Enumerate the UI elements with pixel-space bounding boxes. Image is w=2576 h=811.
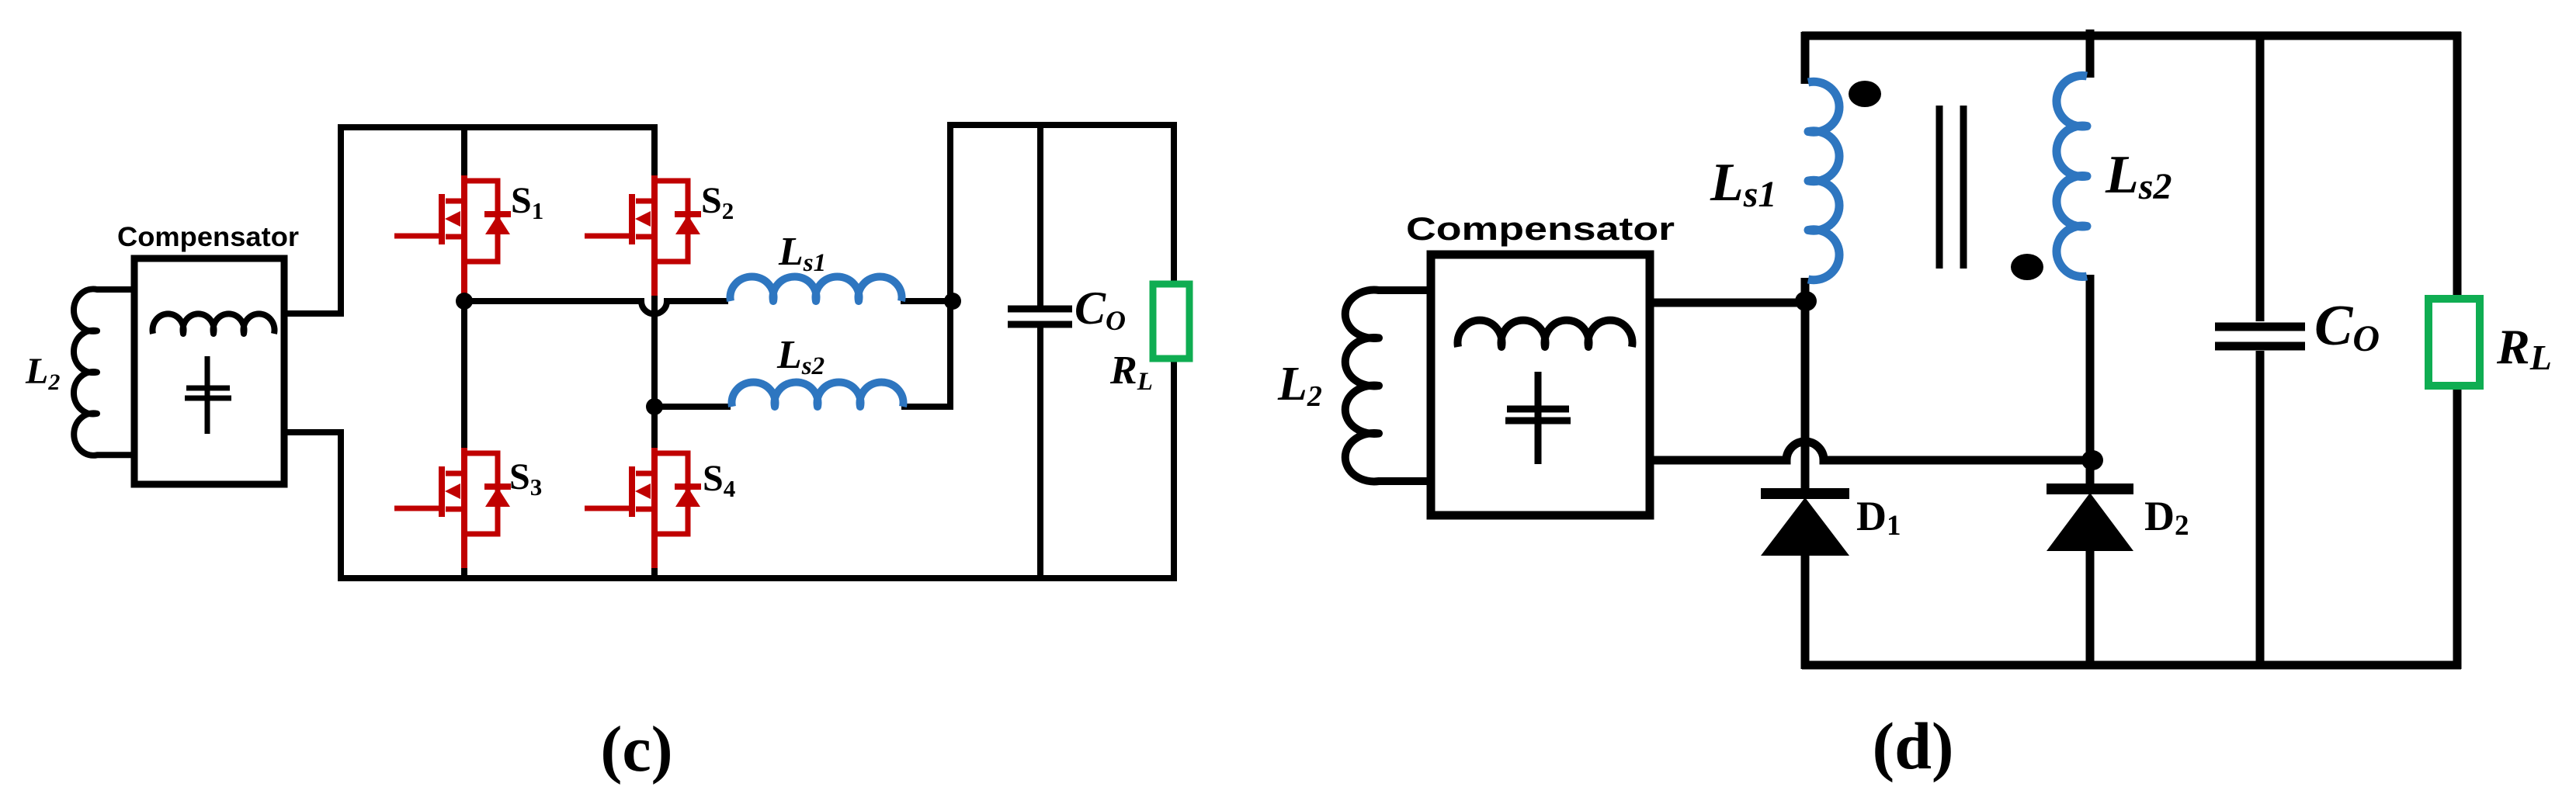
wire: S4 source to bottom bus <box>651 565 658 581</box>
transistor S3 <box>394 448 511 568</box>
wire: Ls2 right connection <box>901 404 950 407</box>
compensator (d) internal inductor <box>1458 321 1633 347</box>
svg-text:(c): (c) <box>600 713 672 785</box>
transistor S2 <box>585 175 701 296</box>
inductor Ls1 (d) coil <box>1808 81 1839 280</box>
capacitor Co (c) plate 2 <box>1008 321 1072 328</box>
wire: S1 drain leg <box>461 127 467 178</box>
wire: circuit (c) lower-left vertical <box>338 432 344 581</box>
transistor S4 <box>585 448 701 568</box>
compensator (d) internal capacitor lead <box>1535 372 1542 464</box>
diode D2 <box>2047 489 2133 551</box>
inductor L2 (d) coil <box>1345 290 1429 482</box>
inductor L2 (c) coil <box>74 289 134 455</box>
wire: circuit (c) inverter top rail <box>338 124 658 130</box>
compensator box (c) <box>134 258 284 484</box>
wire: S1-S3 midpoint leg <box>461 298 467 450</box>
wire: circuit (c) bottom bus <box>338 575 1177 581</box>
transistor S1 <box>394 175 511 296</box>
wire: capacitor Co branch upper <box>1037 122 1043 310</box>
wire: D1 anode to bottom bus <box>1801 554 1810 669</box>
wire: circuit (c) output top rail <box>947 122 1177 128</box>
wire: Ls1 row with hop over S2 leg <box>464 301 728 314</box>
wire: Ls2 (d) bottom to D2 <box>2086 275 2095 487</box>
wire: circuit (d) bottom bus <box>1802 661 2461 670</box>
node: Ls1-compensator junction (d) <box>1795 291 1817 311</box>
wire: S3 source to bottom bus <box>461 565 467 581</box>
svg-text:(d): (d) <box>1872 709 1953 783</box>
wire: Ls1 (d) top stub <box>1801 32 1810 84</box>
node: Ls2-compensator junction (d) <box>2081 450 2103 470</box>
node: S2-S4 midpoint junction <box>646 398 663 415</box>
inductor Ls2 (d) coil <box>2057 75 2087 276</box>
node: S1 source junction <box>456 293 473 310</box>
wire: S4 leg lower segment <box>651 407 658 450</box>
wire: compensator C bottom output <box>279 429 344 435</box>
compensator (c) internal capacitor plate 2 <box>185 396 231 401</box>
wire: circuit (d) top rail <box>1802 32 2461 40</box>
resistor RL (d) <box>2428 299 2480 386</box>
compensator (c) internal capacitor lead <box>205 356 210 434</box>
wire: compensator D bottom output with hop <box>1651 442 2094 460</box>
wire: capacitor Co branch lower <box>1037 324 1043 581</box>
compensator (d) internal capacitor plate 2 <box>1505 418 1571 425</box>
polarity dot Ls2 (d) <box>2011 254 2043 280</box>
wire: circuit (c) mid-right vertical <box>947 122 953 410</box>
wire: S2 drain leg <box>651 127 658 178</box>
wire: Ls2 row left segment <box>654 404 731 410</box>
capacitor Co (d) plate 2 <box>2215 342 2305 351</box>
wire: circuit (c) upper-left vertical <box>338 124 344 314</box>
inductor Ls1 (c) coil <box>731 277 902 301</box>
wire: circuit (d) right vertical (load branch) <box>2453 32 2462 669</box>
compensator box (d) <box>1431 255 1650 515</box>
wire: Ls1 right connection <box>901 298 953 304</box>
svg-text:Compensator: Compensator <box>1406 210 1675 247</box>
capacitor Co (c) plate 1 <box>1008 306 1072 313</box>
wire: capacitor Co (d) branch lower <box>2256 351 2265 669</box>
compensator (d) internal capacitor plate 1 <box>1507 406 1569 413</box>
wire: circuit (c) right vertical (load branch) <box>1171 122 1177 581</box>
polarity dot Ls1 (d) <box>1849 81 1881 107</box>
compensator (c) internal inductor <box>153 314 275 334</box>
capacitor Co (d) plate 1 <box>2215 323 2305 331</box>
resistor RL (c) <box>1153 284 1189 359</box>
inductor Ls2 (c) coil <box>731 383 903 407</box>
wire: S2-S4 midpoint leg <box>651 293 658 408</box>
svg-text:Compensator: Compensator <box>117 222 299 252</box>
wire: compensator C top output <box>279 310 344 317</box>
wire: Ls2 (d) top stub <box>2086 29 2095 78</box>
wire: Ls1 (d) bottom to D1 <box>1801 278 1810 492</box>
compensator (c) internal capacitor plate 1 <box>186 386 230 391</box>
diode D1 <box>1761 494 1849 556</box>
node: Ls1 right junction <box>944 293 961 310</box>
wire: compensator D top output <box>1651 299 1809 307</box>
wire: D2 anode to bottom bus <box>2086 549 2095 669</box>
wire: capacitor Co (d) branch upper <box>2256 32 2265 321</box>
transformer core <box>1936 106 1943 269</box>
